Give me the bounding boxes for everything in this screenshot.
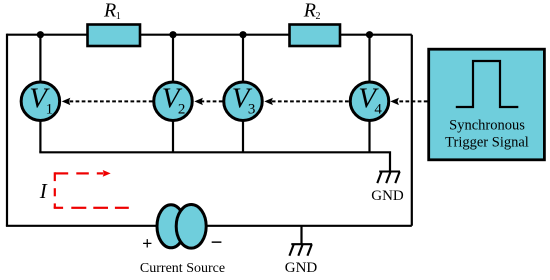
svg-text:I: I xyxy=(39,179,48,203)
ground GND2 (bottom wire) xyxy=(300,226,302,244)
resistor R1 xyxy=(88,25,141,47)
wire: V1 bottom stem xyxy=(39,121,41,153)
wire: outer loop left vertical xyxy=(6,34,8,226)
wire: V4 bottom stem xyxy=(368,121,370,153)
pulse waveform xyxy=(456,61,519,107)
wire: V3 top stem xyxy=(242,35,244,82)
node: junction dot above V2 xyxy=(169,31,176,38)
wire: measurement bus to GND xyxy=(39,152,390,171)
svg-text:−: − xyxy=(211,230,223,254)
svg-text:GND: GND xyxy=(285,260,318,276)
wire: V2 top stem xyxy=(172,35,174,82)
svg-text:1: 1 xyxy=(116,11,121,22)
svg-text:Trigger Signal: Trigger Signal xyxy=(445,134,529,150)
red dashed current path, bottom horizontal xyxy=(54,207,129,209)
node: junction dot above V3 xyxy=(239,31,246,38)
svg-text:2: 2 xyxy=(316,11,321,22)
current source right ellipse xyxy=(176,205,206,249)
svg-text:3: 3 xyxy=(248,101,256,117)
voltmeter V2 xyxy=(154,82,193,121)
svg-text:R: R xyxy=(103,0,116,22)
voltmeter V3 xyxy=(224,82,263,121)
svg-text:4: 4 xyxy=(374,101,382,117)
current source left ellipse xyxy=(157,205,185,248)
red arrowhead xyxy=(103,170,111,177)
dashed arrow V2 to V1 xyxy=(70,100,153,102)
dashed arrow trigger box to V4 xyxy=(398,100,428,102)
dashed arrow V4 to V3 xyxy=(271,100,349,102)
node: junction dot above V4 xyxy=(366,31,373,38)
wire: outer loop right vertical xyxy=(411,35,413,226)
svg-text:+: + xyxy=(142,233,152,253)
red dashed current path, top horizontal with arrow xyxy=(55,172,104,174)
red dashed current path, left vertical xyxy=(54,172,56,208)
ground GND1 (measurement bus) xyxy=(377,172,400,184)
svg-text:R: R xyxy=(303,0,316,22)
voltmeter V4 xyxy=(350,82,389,121)
svg-text:1: 1 xyxy=(46,101,54,117)
voltmeter V1 xyxy=(21,82,60,121)
dashed arrow V3 to V2 xyxy=(201,100,223,102)
resistor R2 xyxy=(290,25,341,47)
node: junction dot above V1 xyxy=(37,31,44,38)
svg-text:Current Source: Current Source xyxy=(140,261,225,276)
wire: V3 bottom stem xyxy=(242,121,244,153)
wire: V1 top stem xyxy=(39,35,41,82)
wire: V4 top stem xyxy=(368,35,370,82)
synchronous trigger signal box xyxy=(429,49,545,160)
svg-text:2: 2 xyxy=(178,101,186,117)
wire: V2 bottom stem xyxy=(172,121,174,153)
wire: outer loop top xyxy=(7,34,412,36)
svg-text:Synchronous: Synchronous xyxy=(449,118,525,134)
svg-text:GND: GND xyxy=(371,188,404,204)
wire: outer loop bottom xyxy=(6,225,412,227)
